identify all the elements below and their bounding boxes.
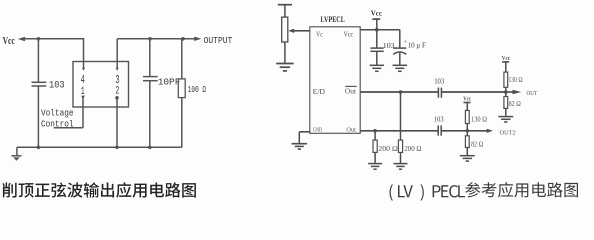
svg-text:10PF: 10PF bbox=[158, 76, 181, 87]
svg-text:E/D: E/D bbox=[313, 88, 325, 96]
svg-text:103: 103 bbox=[383, 41, 395, 50]
svg-text:OUT: OUT bbox=[527, 90, 538, 97]
svg-text:200 Ω: 200 Ω bbox=[404, 145, 421, 153]
svg-text:4: 4 bbox=[81, 74, 85, 87]
svg-text:Vcc: Vcc bbox=[3, 36, 15, 47]
svg-text:130 Ω: 130 Ω bbox=[471, 115, 487, 124]
svg-text:Vcc: Vcc bbox=[344, 30, 354, 38]
svg-text:Out: Out bbox=[345, 88, 356, 96]
svg-text:Out: Out bbox=[346, 127, 356, 134]
svg-text:Vc: Vc bbox=[316, 30, 323, 38]
svg-text:Control: Control bbox=[41, 119, 74, 129]
svg-text:OUT2: OUT2 bbox=[500, 129, 516, 136]
svg-text:82 Ω: 82 Ω bbox=[471, 141, 483, 148]
svg-text:OUTPUT: OUTPUT bbox=[204, 35, 233, 46]
svg-text:100 Ω: 100 Ω bbox=[188, 84, 207, 95]
svg-text:82 Ω: 82 Ω bbox=[509, 101, 521, 108]
svg-text:GND: GND bbox=[313, 127, 323, 134]
svg-text:Voltage: Voltage bbox=[41, 109, 74, 119]
svg-text:103: 103 bbox=[434, 79, 445, 86]
svg-text:130 Ω: 130 Ω bbox=[509, 75, 523, 84]
svg-text:103: 103 bbox=[49, 80, 65, 91]
svg-text:200 Ω: 200 Ω bbox=[378, 145, 398, 153]
svg-text:Vcc: Vcc bbox=[463, 95, 471, 102]
svg-text:2: 2 bbox=[115, 86, 119, 98]
svg-text:LVPECL: LVPECL bbox=[321, 15, 345, 24]
svg-text:Vcc: Vcc bbox=[502, 55, 511, 62]
svg-text:Vcc: Vcc bbox=[371, 9, 383, 18]
svg-text:103: 103 bbox=[434, 117, 444, 124]
svg-text:10 μ F: 10 μ F bbox=[408, 41, 426, 49]
